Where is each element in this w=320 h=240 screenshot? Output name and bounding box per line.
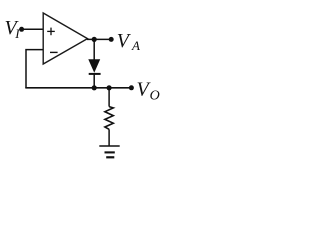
node resistor-VO junction dot	[107, 85, 112, 90]
node VA terminal dot	[109, 37, 114, 42]
wire op-amp output to VA	[87, 38, 111, 40]
wire VO junction to resistor	[108, 88, 110, 107]
wire VO horizontal line	[25, 87, 131, 89]
op-amp plus input symbol	[47, 28, 55, 36]
svg-text:A: A	[131, 38, 140, 53]
wire diode anode	[93, 39, 95, 60]
wire resistor to ground	[108, 129, 110, 145]
svg-text:O: O	[150, 89, 160, 104]
diode D1	[89, 60, 100, 72]
diode D1 cathode bar	[89, 73, 101, 75]
svg-text:V: V	[117, 30, 132, 52]
op-amp U1 triangle	[43, 13, 87, 64]
svg-text:I: I	[14, 26, 20, 41]
wire minus input feedback stub	[26, 50, 43, 88]
op-amp minus input symbol	[50, 51, 58, 53]
node diode-VO junction dot	[92, 85, 97, 90]
node VO terminal dot	[129, 85, 134, 90]
node output junction dot	[92, 37, 97, 42]
node VI terminal dot	[19, 27, 24, 32]
ground	[99, 146, 119, 157]
wire VI to op-amp + input	[22, 28, 43, 30]
resistor R1	[105, 107, 113, 130]
wire diode cathode to VO line	[93, 74, 95, 88]
